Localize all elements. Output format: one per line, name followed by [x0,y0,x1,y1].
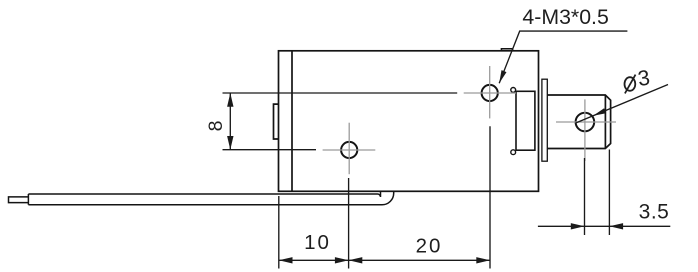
leader line diameter 3 [576,85,668,124]
arrowheads [227,70,623,263]
centerline bottom hole vertical [348,123,350,175]
leader line 4-M3*0.5 [499,31,627,83]
bracket plate [516,91,535,150]
centerline plunger hole horizontal [556,121,616,123]
svg-text:20: 20 [416,234,443,257]
dimension drawing (thin black) [223,31,671,268]
solenoid body outline [279,51,539,192]
arrow dim3.5 right [609,223,623,229]
centerline top hole vertical [489,66,491,118]
arrow dim8 up [227,93,233,107]
label diameter 3 (slanted) [625,66,652,94]
flange plate [542,79,547,161]
svg-text:4-M3*0.5: 4-M3*0.5 [522,5,608,29]
M3 mounting hole top [482,85,498,101]
svg-text:10: 10 [304,231,331,254]
plunger end face line [604,95,606,149]
top edge boss [501,49,512,51]
arrow dim8 down [227,136,233,150]
bracket pivot pin bottom [511,150,516,155]
centerline top hole horizontal [464,92,516,94]
armature rod plate [28,192,393,205]
extension line mid (hole axis, for dims 10/20) [348,178,350,269]
arrow dim10 left [279,257,293,263]
dimension line 8 [229,93,231,150]
extension line bottom (for dim 8) [223,149,317,151]
dimension line 10-20 [279,259,490,261]
armature rod tip [9,197,29,203]
svg-text:3.5: 3.5 [639,201,670,224]
arrow dim20 left [349,257,363,263]
extension line plunger end (for dim 3.5) [608,150,610,236]
arrow dim20 right [476,257,490,263]
plunger outline [547,95,610,149]
centerline bottom hole horizontal [323,149,376,151]
plunger hole [576,113,595,132]
bracket pivot pin top [511,88,516,93]
centerlines (gray) [323,66,616,174]
centerline plunger hole vertical [584,99,586,161]
body left cap inner line [291,51,293,192]
arrow dim10 right [335,257,349,263]
arrow leader M3 [499,70,506,83]
svg-text:8: 8 [205,121,227,132]
extension line hole axis (for dim 3.5) [584,158,586,235]
extension line right (top hole axis, for dim 20) [489,126,491,268]
left side tab [274,104,279,139]
M3 mounting hole bottom-left [341,142,357,158]
extension line left (for dim 10) [278,196,280,269]
arrow dim3.5 left [571,223,585,229]
arrow leader diameter3 [593,108,606,116]
dimension line 3.5 [538,225,670,227]
extension line top (hole axis, for dim 8) [223,92,458,94]
